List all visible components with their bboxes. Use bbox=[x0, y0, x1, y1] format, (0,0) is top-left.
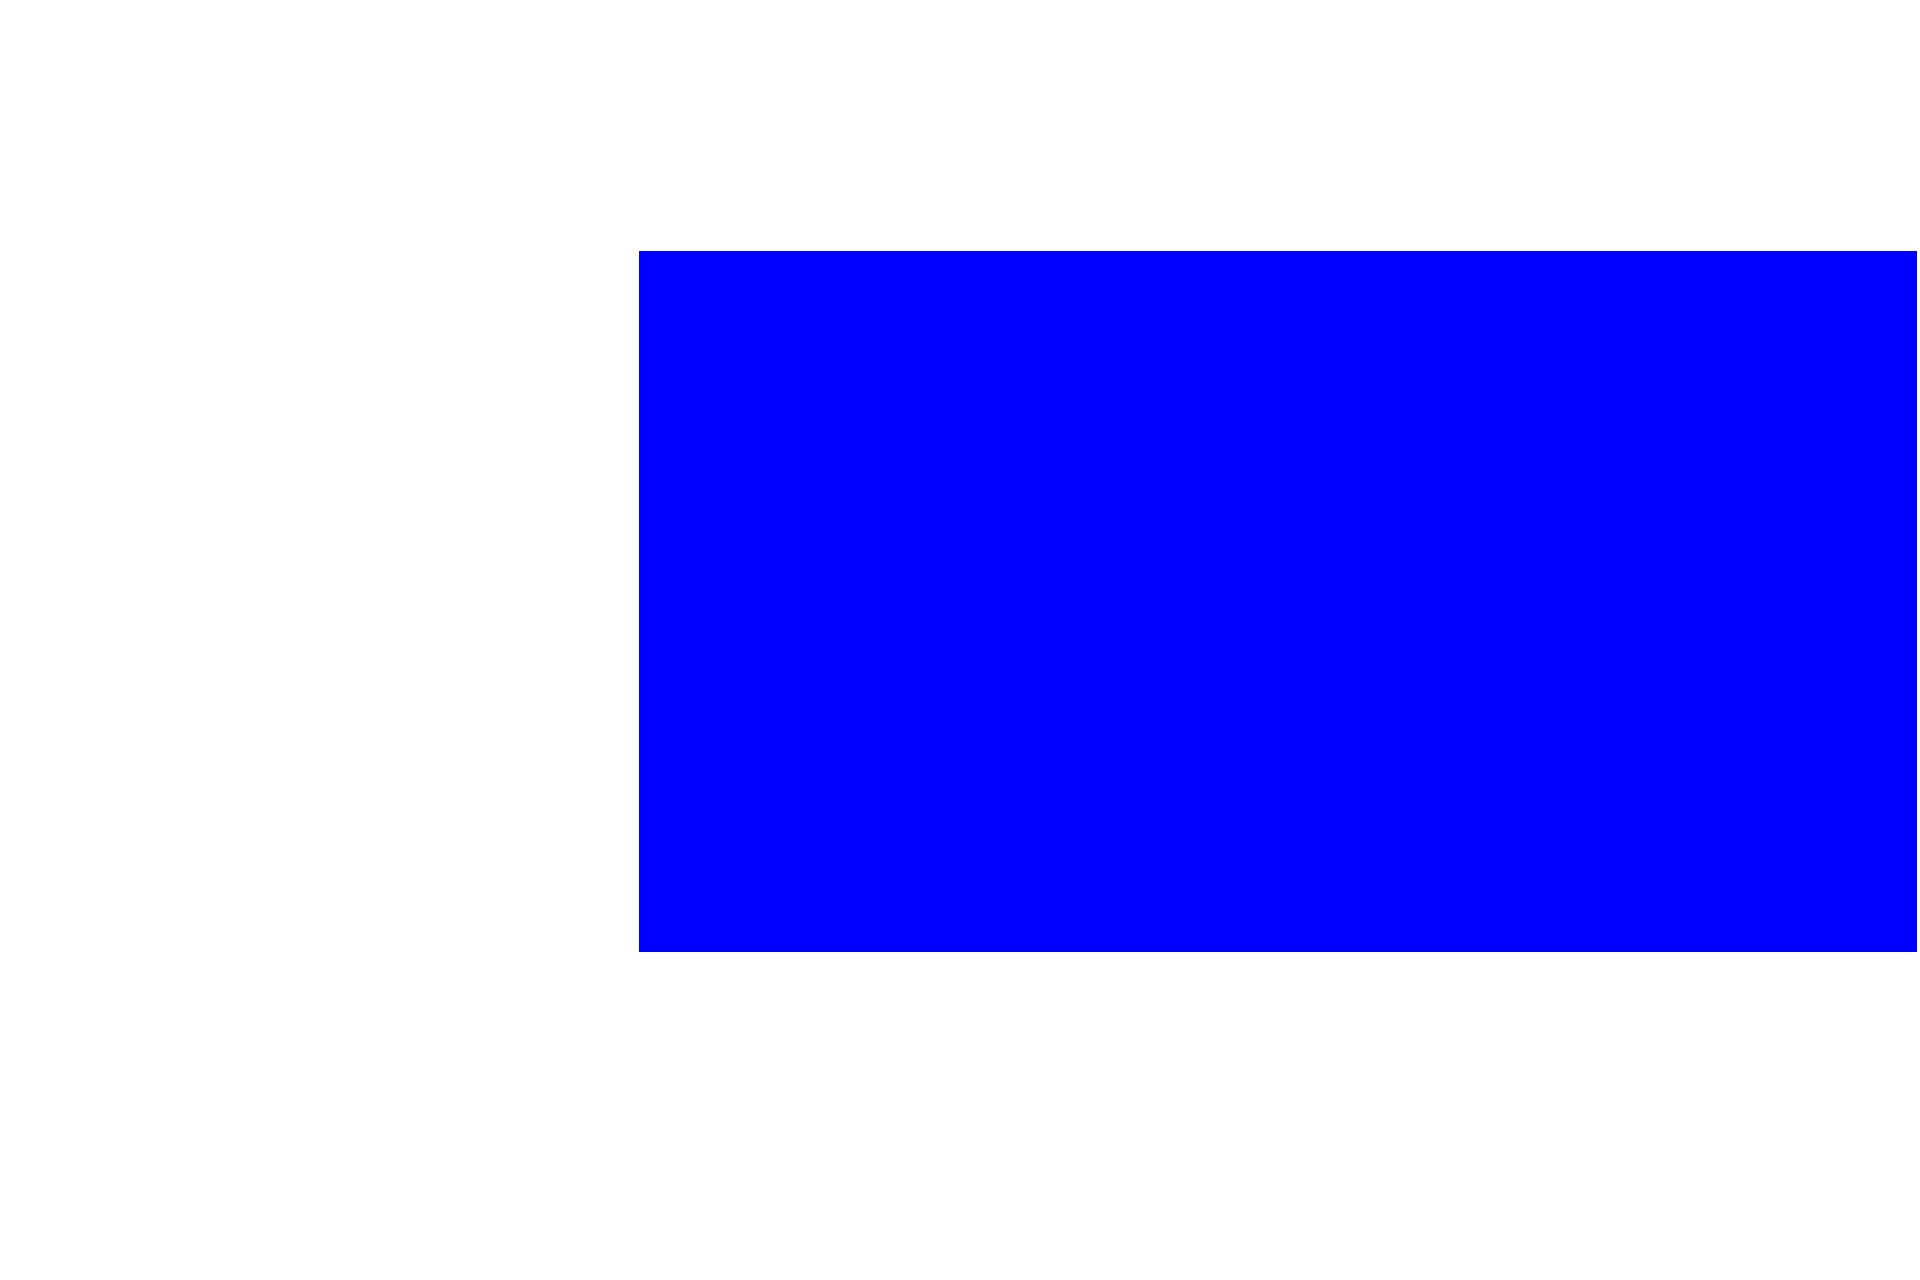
blue rectangle bbox=[639, 251, 1917, 952]
